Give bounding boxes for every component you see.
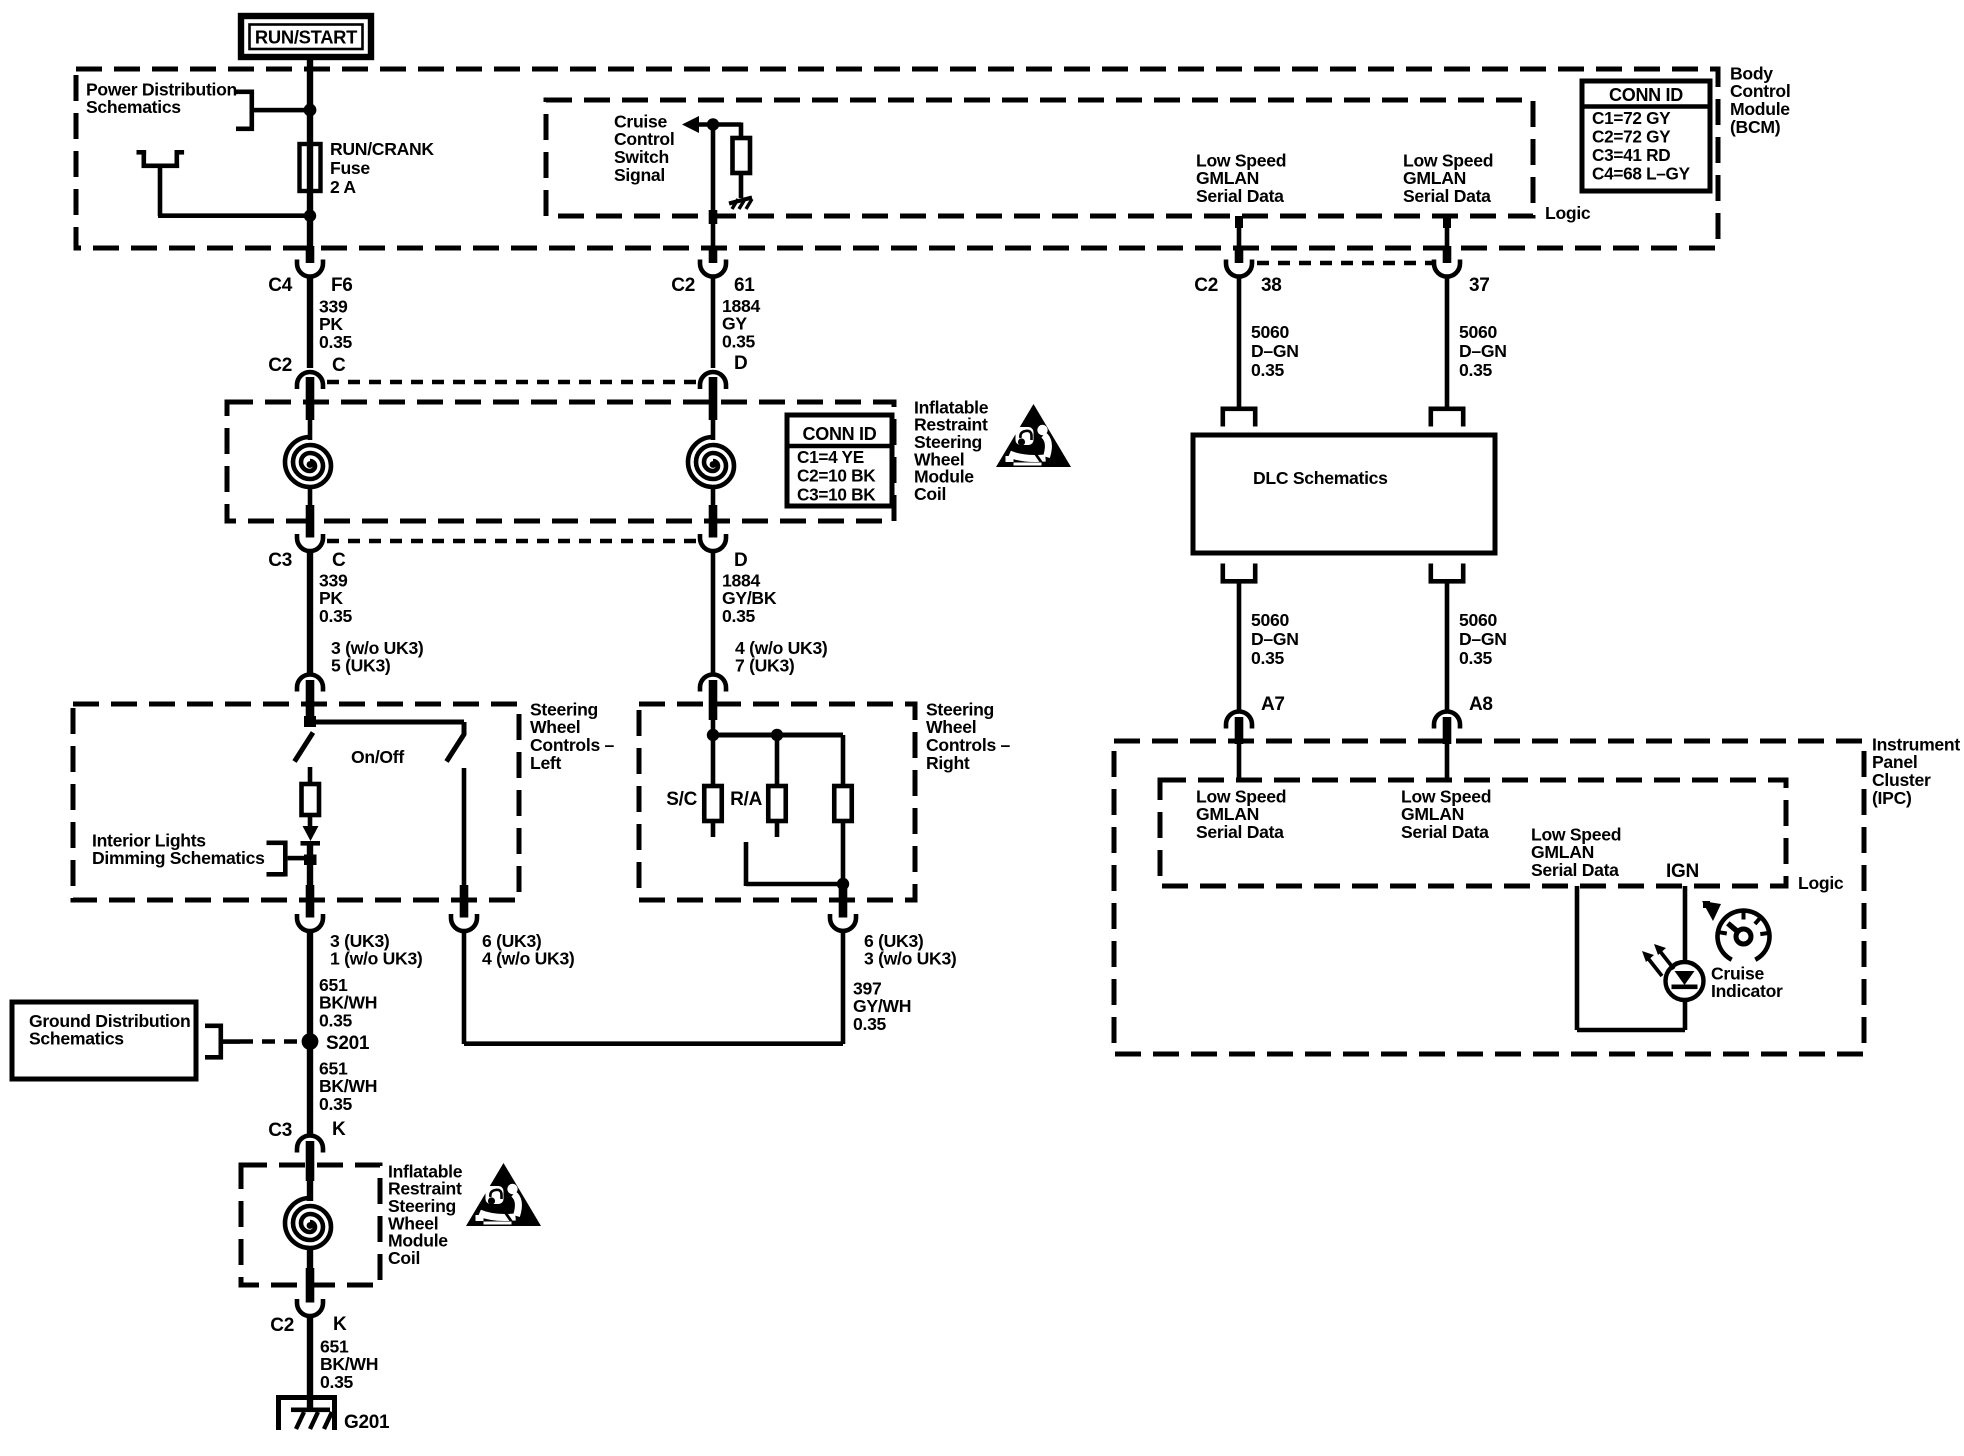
connector arch into right box	[700, 675, 726, 692]
svg-text:Schematics: Schematics	[86, 97, 181, 117]
wire 1884 GY/BK	[711, 551, 716, 674]
label wire 651 BK/WH 0.35 (lower)	[320, 1336, 378, 1392]
svg-text:C: C	[332, 355, 346, 376]
ground G201 symbol	[276, 1395, 337, 1430]
svg-text:C2=10 BK: C2=10 BK	[797, 466, 876, 486]
wire serial data to LED branch (left leg)	[1575, 886, 1580, 1030]
svg-text:1 (w/o UK3): 1 (w/o UK3)	[330, 949, 423, 969]
label Cruise Control Switch Signal	[614, 111, 674, 184]
svg-text:0.35: 0.35	[319, 1010, 353, 1030]
svg-text:5060: 5060	[1251, 322, 1289, 342]
stub left switch exit	[306, 885, 315, 918]
ground distribution reference box	[12, 1002, 196, 1079]
stub GMLAN at BCM edge x=1239	[1235, 246, 1244, 263]
terminal staple DLC bottom x=1447	[1429, 564, 1466, 584]
label pin 37	[1469, 275, 1490, 296]
svg-text:Serial Data: Serial Data	[1531, 860, 1619, 880]
connector C2 cruise (cup)	[700, 260, 726, 277]
wire A7 to IPC logic	[1237, 744, 1242, 779]
stub left coil exit	[306, 505, 315, 538]
cruise indicator gauge icon	[1718, 911, 1770, 960]
dimmer arrow	[303, 826, 319, 841]
label wire 339 PK 0.35	[319, 296, 353, 352]
node ladder junction 2	[771, 729, 783, 741]
wire 651 upper	[307, 931, 313, 1038]
dotted link 38 to 37	[1257, 261, 1432, 265]
svg-text:CONN ID: CONN ID	[1609, 85, 1683, 105]
reference bracket Interior Lights	[267, 841, 309, 877]
svg-text:D: D	[734, 353, 747, 374]
label Steering Wheel Controls Right	[926, 699, 1011, 772]
svg-text:Coil: Coil	[914, 484, 946, 504]
label pin C (upper)	[332, 355, 346, 376]
label wire 397 GY/WH 0.35	[853, 978, 911, 1034]
stub GMLAN at BCM edge x=1447	[1443, 246, 1452, 263]
clockspring coil symbol (left)	[285, 437, 331, 487]
label pin 4 w/o UK3	[735, 638, 828, 676]
svg-text:Serial Data: Serial Data	[1196, 186, 1284, 206]
connector C3 (cup)	[297, 534, 323, 551]
open stub wire	[746, 842, 843, 886]
svg-text:K: K	[333, 1314, 347, 1335]
label Logic (BCM)	[1545, 203, 1591, 223]
wire 5060 D-GN upper x=1447	[1445, 276, 1450, 407]
wire 397 GY/WH	[841, 931, 846, 1044]
resistor third	[834, 786, 852, 821]
svg-text:0.35: 0.35	[1251, 360, 1285, 380]
label C2 (left column)	[268, 355, 292, 376]
dotted link C2 to D (upper)	[327, 380, 698, 384]
wire through coil lower	[307, 1181, 313, 1268]
label Inflatable Restraint Steering Wheel Module Coil (lower)	[388, 1161, 463, 1268]
label IGN	[1666, 861, 1699, 882]
svg-text:RUN/CRANK: RUN/CRANK	[330, 139, 434, 159]
wire through coil cruise	[711, 418, 716, 506]
label Interior Lights Dimming Schematics	[92, 830, 265, 868]
svg-text:(BCM): (BCM)	[1730, 117, 1780, 137]
svg-text:5060: 5060	[1251, 610, 1289, 630]
label C2 (GMLAN)	[1194, 275, 1218, 296]
wire resistor to ground	[739, 173, 744, 198]
svg-text:C2: C2	[671, 275, 695, 296]
wire IGN to LED (right leg)	[1683, 886, 1688, 1030]
label wire 651 BK/WH 0.35 (mid)	[319, 1058, 377, 1114]
svg-text:61: 61	[734, 275, 755, 296]
wire below third	[841, 821, 846, 901]
dimmer tap bar	[301, 841, 321, 846]
fuse RUN/CRANK 2A	[300, 144, 321, 191]
wire cross link 397	[464, 1041, 843, 1046]
airbag warning triangle (lower)	[466, 1163, 541, 1226]
wire 339 PK lower	[307, 551, 313, 674]
airbag warning triangle (upper)	[996, 404, 1071, 467]
wire right branch of switch	[462, 768, 467, 901]
svg-text:C3=41 RD: C3=41 RD	[1592, 145, 1670, 165]
unconnected terminal symbol	[137, 150, 185, 216]
wire drop R/A	[775, 735, 780, 786]
connector C2 pin 37 (cup)	[1434, 260, 1460, 277]
svg-text:0.35: 0.35	[320, 1372, 354, 1392]
label Ground Distribution Schematics	[29, 1011, 190, 1049]
label wire 5060 D-GN 0.35 lower x=1239	[1251, 610, 1299, 668]
arrow into gauge	[1702, 901, 1721, 921]
wire 1884 GY	[711, 276, 716, 368]
svg-text:Schematics: Schematics	[29, 1029, 124, 1049]
wire through coil left	[308, 418, 313, 506]
label DLC Schematics	[1253, 468, 1388, 488]
wire 5060 D-GN upper x=1239	[1237, 276, 1242, 407]
stub GMLAN at logic edge x=1239	[1235, 216, 1243, 228]
svg-text:Left: Left	[530, 753, 561, 773]
svg-text:D–GN: D–GN	[1251, 341, 1299, 361]
wire LED branch bottom	[1577, 1028, 1685, 1033]
connector A8 (arch)	[1434, 712, 1460, 729]
label On/Off	[351, 747, 404, 767]
DLC Schematics box	[1193, 435, 1495, 553]
dotted link C to D (lower)	[327, 539, 698, 543]
switch blade left	[295, 733, 314, 762]
label G201	[344, 1412, 390, 1433]
connector right branch (cup)	[451, 914, 477, 931]
arrow cruise signal (points left)	[682, 116, 741, 133]
svg-text:0.35: 0.35	[1459, 648, 1493, 668]
svg-text:CONN ID: CONN ID	[803, 424, 877, 444]
reference bracket Ground Distribution	[205, 1024, 240, 1060]
connector C2 K (cup)	[297, 1299, 323, 1316]
node dimmer tap junction	[304, 855, 317, 866]
node junction at bracket tap	[304, 104, 317, 117]
svg-text:C1=72 GY: C1=72 GY	[1592, 108, 1671, 128]
connector right box (cup)	[830, 914, 856, 931]
resistor S/C	[704, 786, 722, 821]
switch top bar	[310, 722, 464, 735]
wire below R/A	[775, 821, 780, 837]
wire drop third	[841, 735, 846, 786]
wire resistor to arrow	[308, 815, 313, 826]
connector C3 K (arch)	[297, 1136, 323, 1153]
connector left switch (cup)	[297, 914, 323, 931]
label wire 1884 GY 0.35	[722, 296, 760, 352]
svg-text:0.35: 0.35	[1459, 360, 1493, 380]
svg-text:4 (w/o UK3): 4 (w/o UK3)	[482, 949, 575, 969]
LED cruise indicator	[1666, 962, 1704, 1000]
node junction below fuse	[304, 210, 316, 222]
terminal staple DLC bottom x=1239	[1221, 564, 1258, 584]
clockspring coil symbol (cruise)	[688, 437, 734, 487]
svg-text:K: K	[332, 1119, 346, 1140]
svg-text:C3=10 BK: C3=10 BK	[797, 484, 876, 504]
svg-text:7 (UK3): 7 (UK3)	[735, 656, 795, 676]
stub right branch exit	[460, 885, 469, 918]
stub cruise wire at logic box edge	[709, 210, 718, 224]
svg-text:5060: 5060	[1459, 610, 1497, 630]
svg-text:C: C	[332, 550, 346, 571]
label C4	[268, 275, 292, 296]
stub cruise coil exit	[709, 505, 718, 538]
label Steering Wheel Controls Left	[530, 699, 615, 772]
label S/C	[666, 789, 697, 810]
label pin D (lower)	[734, 550, 747, 571]
svg-text:3 (w/o UK3): 3 (w/o UK3)	[864, 949, 957, 969]
label wire 5060 D-GN 0.35 lower x=1447	[1459, 610, 1507, 668]
label Body Control Module BCM	[1730, 63, 1790, 136]
label pin 3 w/o UK3	[331, 638, 424, 676]
connector D (arch)	[700, 372, 726, 389]
LED light arrows	[1642, 944, 1674, 976]
svg-text:0.35: 0.35	[722, 606, 756, 626]
label pin 61	[734, 275, 755, 296]
label pin K (lower)	[333, 1314, 347, 1335]
label pin F6	[331, 275, 353, 296]
svg-text:C2: C2	[268, 355, 292, 376]
label Inflatable Restraint Steering Wheel Module Coil (upper)	[914, 397, 989, 504]
coil module dashed box (upper)	[227, 402, 894, 521]
switch blade right	[447, 734, 465, 762]
svg-text:RUN/START: RUN/START	[255, 27, 358, 48]
stub coil box 2 exit	[306, 1268, 315, 1303]
wire A8 to IPC logic	[1445, 744, 1450, 779]
label pin A7	[1261, 694, 1285, 715]
label Low Speed GMLAN Serial Data (IPC inner)	[1531, 824, 1621, 880]
power feed box RUN/START	[241, 16, 371, 57]
svg-text:On/Off: On/Off	[351, 747, 404, 767]
connector A7 (arch)	[1226, 712, 1252, 729]
svg-text:C2: C2	[270, 1315, 294, 1336]
CONN ID table (coil)	[787, 415, 892, 506]
svg-text:38: 38	[1261, 275, 1282, 296]
IPC logic dashed box	[1160, 780, 1786, 886]
svg-text:Serial Data: Serial Data	[1403, 186, 1491, 206]
dashed wire to S201	[240, 1039, 302, 1044]
label pin 38	[1261, 275, 1282, 296]
label C2 (lower)	[270, 1315, 294, 1336]
label RUN/CRANK Fuse 2A	[330, 139, 434, 197]
svg-text:0.35: 0.35	[319, 1094, 353, 1114]
svg-text:Logic: Logic	[1798, 873, 1844, 893]
label pins 3 UK3 / 1 w/o UK3	[330, 931, 423, 969]
svg-text:S201: S201	[326, 1033, 370, 1054]
svg-text:Serial Data: Serial Data	[1401, 822, 1489, 842]
dimmer resistor	[302, 784, 320, 815]
label pins 6 UK3 / 3 w/o UK3	[864, 931, 957, 969]
svg-text:D–GN: D–GN	[1251, 629, 1299, 649]
connector D lower (cup)	[700, 534, 726, 551]
stub into coil box	[306, 377, 315, 420]
label Low Speed GMLAN Serial Data (IPC right)	[1401, 786, 1491, 842]
stub right box exit	[839, 885, 848, 918]
svg-text:Right: Right	[926, 753, 970, 773]
svg-text:Serial Data: Serial Data	[1196, 822, 1284, 842]
svg-text:Dimming Schematics: Dimming Schematics	[92, 848, 265, 868]
svg-text:2 A: 2 A	[330, 177, 356, 197]
wire tap down	[307, 845, 313, 901]
label Instrument Panel Cluster (IPC)	[1872, 734, 1960, 807]
stub into coil box 2	[306, 1141, 315, 1181]
wire cruise signal down	[711, 125, 716, 214]
wire cruise to BCM edge	[711, 224, 716, 246]
svg-text:C2: C2	[1194, 275, 1218, 296]
label pin K (upper)	[332, 1119, 346, 1140]
resistor R/A	[768, 786, 786, 821]
svg-text:DLC Schematics: DLC Schematics	[1253, 468, 1388, 488]
wire right branch down	[462, 931, 467, 1044]
label wire 651 BK/WH 0.35 (upper)	[319, 975, 377, 1031]
label wire 5060 D-GN 0.35 x=1239	[1251, 322, 1299, 380]
connector C2 pin 38 (cup)	[1226, 260, 1252, 277]
svg-text:Signal: Signal	[614, 165, 665, 185]
CONN ID table (BCM)	[1582, 81, 1710, 191]
wire 5060 lower x=1447	[1445, 583, 1450, 712]
label S201	[326, 1033, 370, 1054]
wire 651 to ground	[307, 1316, 313, 1410]
svg-text:Logic: Logic	[1545, 203, 1591, 223]
wire 651 lower	[307, 1045, 313, 1136]
svg-text:D–GN: D–GN	[1459, 629, 1507, 649]
stub A8 into IPC	[1443, 717, 1452, 744]
label Cruise Indicator	[1711, 963, 1783, 1001]
ground symbol (BCM internal)	[729, 198, 752, 210]
wire to resistor ladder top	[711, 720, 716, 737]
terminal staple DLC top x=1447	[1429, 407, 1466, 427]
label C3 (lower)	[268, 1120, 292, 1141]
stub cruise C2 connector	[709, 246, 718, 263]
wire GMLAN logic to BCM edge x=1447	[1445, 216, 1450, 246]
svg-text:C4: C4	[268, 275, 292, 296]
node junction on cruise line	[707, 118, 719, 130]
label pins 6 UK3 / 4 w/o UK3	[482, 931, 575, 969]
svg-text:0.35: 0.35	[722, 331, 756, 351]
steering wheel controls right dashed box	[639, 704, 915, 900]
svg-text:C1=4 YE: C1=4 YE	[797, 447, 864, 467]
ladder top bar	[713, 733, 843, 738]
node ladder junction 1	[707, 729, 719, 741]
label Low Speed GMLAN Serial Data (IPC left)	[1196, 786, 1286, 842]
wire GMLAN logic to BCM edge x=1239	[1237, 216, 1242, 246]
svg-text:0.35: 0.35	[853, 1014, 887, 1034]
svg-text:5060: 5060	[1459, 322, 1497, 342]
svg-text:0.35: 0.35	[1251, 648, 1285, 668]
clockspring coil symbol (lower)	[285, 1198, 331, 1248]
svg-text:0.35: 0.35	[319, 606, 353, 626]
label R/A	[730, 789, 762, 810]
label wire 339 PK 0.35 (lower)	[319, 570, 353, 626]
coil module dashed box (lower)	[241, 1165, 380, 1285]
svg-text:A7: A7	[1261, 694, 1285, 715]
stub into left box	[306, 680, 315, 720]
reference bracket Power Distribution	[236, 90, 308, 132]
label wire 1884 GY/BK 0.35	[722, 570, 777, 626]
connector C2 (arch)	[297, 372, 323, 389]
connector arch into left box	[297, 675, 323, 692]
BCM outer dashed box	[76, 69, 1718, 248]
svg-text:37: 37	[1469, 275, 1490, 296]
switch left fixed contact	[308, 767, 313, 784]
label Low Speed GMLAN Serial Data (BCM left)	[1196, 150, 1286, 206]
label pin A8	[1469, 694, 1493, 715]
svg-text:Fuse: Fuse	[330, 158, 370, 178]
svg-text:D–GN: D–GN	[1459, 341, 1507, 361]
wire 5060 lower x=1239	[1237, 583, 1242, 712]
node switch pivot	[304, 716, 316, 727]
label C3	[268, 550, 292, 571]
connector C4 (cup)	[297, 260, 323, 277]
svg-text:S/C: S/C	[666, 789, 697, 810]
terminal staple DLC top x=1239	[1221, 407, 1258, 427]
svg-text:R/A: R/A	[730, 789, 762, 810]
label Power Distribution Schematics	[86, 79, 237, 117]
label pin C (lower)	[332, 550, 346, 571]
svg-text:0.35: 0.35	[319, 332, 353, 352]
svg-text:IGN: IGN	[1666, 861, 1699, 882]
stub into right box	[709, 680, 718, 720]
svg-text:D: D	[734, 550, 747, 571]
svg-text:C3: C3	[268, 550, 292, 571]
stub GMLAN at logic edge x=1447	[1443, 216, 1451, 228]
svg-text:(IPC): (IPC)	[1872, 788, 1912, 808]
IPC outer dashed box	[1114, 741, 1864, 1054]
wire into pull-up resistor	[739, 123, 744, 139]
BCM logic dashed box	[546, 100, 1533, 216]
label Low Speed GMLAN Serial Data (BCM right)	[1403, 150, 1493, 206]
wire drop S/C	[711, 735, 716, 786]
wire RUN/START to fuse	[307, 57, 313, 246]
stub C4 connector	[306, 246, 315, 263]
stub cruise into coil box	[709, 377, 718, 420]
label Logic (IPC)	[1798, 873, 1844, 893]
svg-text:G201: G201	[344, 1412, 390, 1433]
svg-text:F6: F6	[331, 275, 353, 296]
steering wheel controls left dashed box	[73, 704, 519, 900]
label wire 5060 D-GN 0.35 x=1447	[1459, 322, 1507, 380]
wire C4 to C2 (circuit 339)	[307, 276, 313, 368]
splice S201	[302, 1033, 319, 1050]
svg-text:C4=68 L–GY: C4=68 L–GY	[1592, 163, 1691, 183]
label C2 (cruise)	[671, 275, 695, 296]
resistor cruise pull-down	[733, 138, 751, 173]
node ladder bottom junction	[837, 878, 849, 890]
wire terminal branch to main	[158, 213, 306, 218]
stub A7 into IPC	[1235, 717, 1244, 744]
svg-text:Indicator: Indicator	[1711, 981, 1783, 1001]
svg-text:5 (UK3): 5 (UK3)	[331, 656, 391, 676]
svg-text:A8: A8	[1469, 694, 1493, 715]
svg-text:C2=72 GY: C2=72 GY	[1592, 126, 1671, 146]
label pin D (upper)	[734, 353, 747, 374]
wire below S/C	[711, 821, 716, 837]
svg-text:C3: C3	[268, 1120, 292, 1141]
svg-text:Coil: Coil	[388, 1248, 420, 1268]
